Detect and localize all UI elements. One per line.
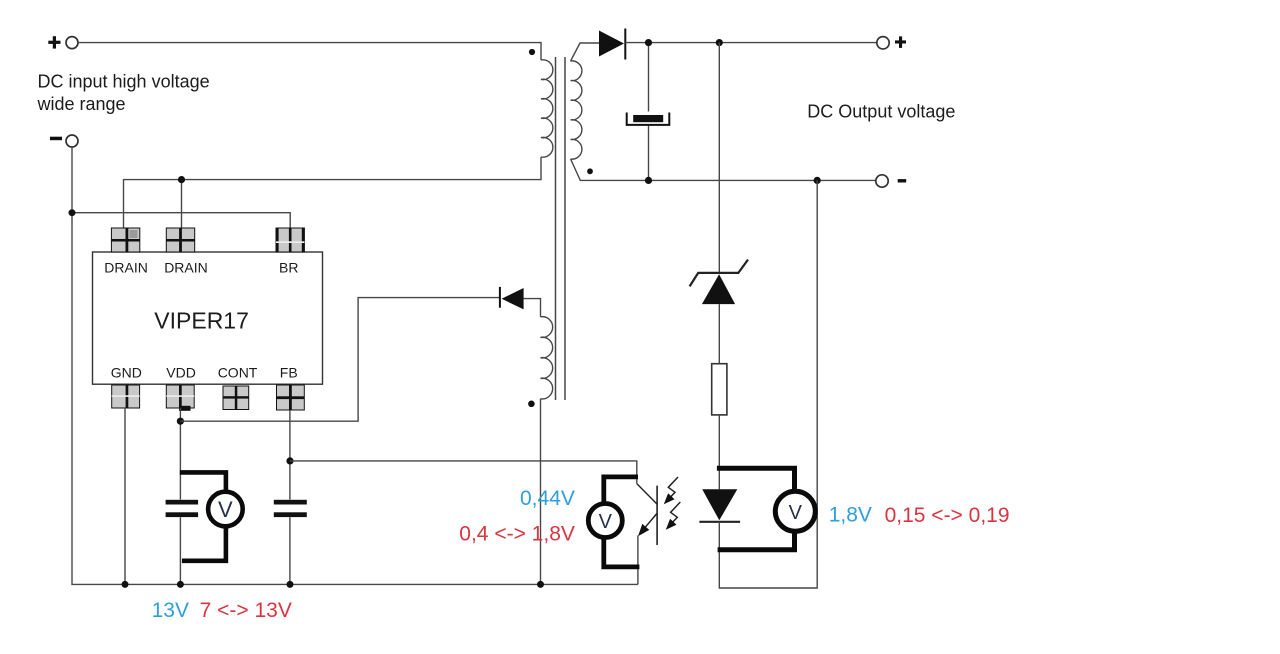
svg-text:GND: GND	[111, 365, 142, 381]
wire FB to optocoupler collector	[290, 461, 637, 484]
wire output cap branch	[648, 43, 650, 181]
node top rail cap junction	[645, 39, 652, 46]
svg-text:0,44V: 0,44V	[520, 487, 575, 510]
optocoupler phototransistor base bar	[656, 486, 658, 545]
wire aux diode to winding	[524, 299, 541, 317]
node drain rail junction	[178, 176, 185, 183]
svg-text:V: V	[789, 502, 803, 524]
svg-text:FB: FB	[280, 365, 298, 381]
transformer T1 aux winding	[541, 317, 553, 399]
node bottom rail cap junction	[645, 177, 652, 184]
node aux rail junction	[537, 581, 544, 588]
pin VDD pad	[166, 385, 194, 411]
pin FB pad	[277, 385, 305, 410]
svg-text:CONT: CONT	[218, 365, 258, 381]
wire secondary top to diode	[571, 43, 599, 61]
capacitor Cout electrolytic	[633, 115, 663, 122]
svg-text:V: V	[599, 511, 613, 533]
svg-text:13V: 13V	[152, 599, 189, 622]
node VDD rail junction	[177, 581, 184, 588]
svg-text:BR: BR	[279, 260, 298, 276]
wire secondary bottom to output - rail	[571, 159, 876, 180]
capacitor C2 FB	[274, 500, 307, 517]
voltmeter V2 leads	[604, 477, 640, 567]
wire zener branch from + rail	[718, 43, 720, 273]
transformer T1 primary winding	[541, 60, 553, 157]
node FB rail junction	[287, 581, 294, 588]
svg-text:0,4 <-> 1,8V: 0,4 <-> 1,8V	[459, 522, 575, 545]
svg-text:V: V	[218, 497, 233, 522]
node BR minus junction	[69, 209, 76, 216]
terminal + input	[66, 37, 78, 49]
svg-text:DC Output voltage: DC Output voltage	[807, 102, 955, 122]
transformer T1 core	[556, 57, 566, 400]
pin DRAIN 2 pad	[166, 228, 194, 252]
svg-text:DRAIN: DRAIN	[164, 260, 208, 276]
IC U1 VIPER17 body	[93, 252, 323, 384]
light arrow 2	[671, 502, 681, 523]
wire input minus down left rail and bottom rail	[72, 147, 638, 584]
node top rail zener junction	[716, 39, 723, 46]
svg-text:0,15 <-> 0,19: 0,15 <-> 0,19	[885, 504, 1010, 527]
node primary polarity dot	[529, 49, 535, 55]
wire diode to output +	[625, 42, 877, 44]
terminal + output	[877, 37, 889, 49]
terminal - output	[876, 175, 888, 187]
optocoupler emitter diagonal with arrow	[644, 514, 657, 530]
svg-text:7 <-> 13V: 7 <-> 13V	[200, 599, 292, 622]
wire VDD to aux diode	[180, 298, 499, 422]
resistor R1	[712, 364, 727, 415]
voltmeter V1 leads	[180, 472, 226, 560]
pin BR pad	[276, 228, 304, 252]
node secondary polarity dot	[587, 168, 593, 174]
node GND rail junction	[122, 581, 129, 588]
svg-text:DRAIN: DRAIN	[104, 260, 148, 276]
wire primary bottom to drain rail	[124, 157, 542, 228]
svg-text:wide range: wide range	[37, 94, 126, 114]
diode D1 output rectifier	[624, 29, 626, 60]
svg-text:VDD: VDD	[166, 365, 196, 381]
pin CONT pad	[223, 386, 249, 410]
node aux polarity dot	[528, 401, 535, 408]
voltmeter V2	[588, 504, 622, 538]
light arrow 1	[668, 477, 678, 498]
wire BR branch	[72, 213, 290, 228]
voltmeter V1	[208, 492, 243, 527]
terminal - input	[66, 135, 78, 147]
svg-text:1,8V: 1,8V	[829, 504, 872, 527]
node VDD junction	[177, 418, 184, 425]
node output - rail junction	[814, 177, 821, 184]
wire zener to resistor	[718, 304, 720, 364]
LED optocoupler diode	[702, 489, 737, 520]
wire FB pin down through cap to rail	[289, 410, 291, 584]
wire emitter to rail	[637, 536, 639, 585]
zener diode DZ	[690, 260, 748, 287]
pin DRAIN 1 pad	[111, 228, 139, 252]
wire LED cathode to bottom loop and up to - rail	[719, 180, 817, 588]
svg-text:VIPER17: VIPER17	[154, 308, 249, 334]
capacitor C1 VDD	[166, 500, 199, 517]
wire resistor to LED	[718, 415, 720, 489]
wire input + rail to transformer primary and drain rail	[78, 43, 541, 60]
pin GND pad	[112, 385, 140, 408]
voltmeter V3	[775, 491, 815, 531]
node FB junction	[286, 457, 293, 464]
svg-text:DC input high voltage: DC input high voltage	[38, 71, 210, 91]
wire drain2 branch	[181, 180, 183, 228]
diode D2 aux rectifier	[499, 287, 501, 308]
wire aux winding bottom to rail	[540, 399, 542, 585]
optocoupler collector diagonal	[637, 484, 657, 504]
voltmeter V3 leads	[717, 468, 795, 550]
wire GND pin to bottom rail	[124, 408, 126, 584]
wire VDD pin down through cap to rail	[179, 408, 181, 584]
transformer T1 secondary winding	[571, 61, 582, 159]
